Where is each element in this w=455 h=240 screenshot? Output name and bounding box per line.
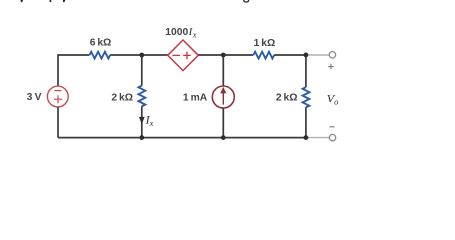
svg-text:1mA: 1mA — [183, 92, 208, 103]
wire: 1mA branch upper — [222, 55, 224, 86]
resistor 2 kOhm right (vertical zigzag) — [303, 87, 310, 107]
wire: left vertical top (corner to source) — [57, 54, 59, 86]
current arrow Ix (down) — [139, 117, 145, 124]
cropped text fragment 2 (top edge) — [50, 0, 52, 2]
dependent source U1 diamond 1000Ix — [168, 40, 199, 71]
wire: middle branch lower (2k to bottom rail) — [141, 106, 143, 137]
wire: top, 1k to right junction — [274, 54, 306, 56]
wire: stub to bottom output terminal (light) — [306, 137, 329, 139]
resistor 1 kOhm (horizontal zigzag) — [253, 52, 274, 59]
cropped text fragment 3 (top edge) — [63, 0, 66, 2]
svg-text:2kΩ: 2kΩ — [111, 93, 133, 104]
plus sign inside diamond — [183, 52, 191, 60]
arrow inside current source (up) — [222, 93, 224, 105]
minus sign of output — [329, 126, 334, 128]
plus sign of output — [328, 64, 333, 69]
node dot top 1mA-branch — [221, 53, 226, 58]
current source I1 1mA (circle) — [212, 86, 234, 108]
cropped text fragment 1 (top edge) — [21, 0, 24, 2]
wire: top, 6k to diamond — [110, 54, 168, 56]
svg-text:1kΩ: 1kΩ — [254, 38, 276, 49]
minus sign inside diamond — [172, 54, 180, 56]
node dot top middle-branch — [139, 53, 144, 58]
node dot bottom right-branch — [304, 135, 309, 140]
wire: top, diamond to 1k resistor — [198, 54, 253, 56]
wire: right branch upper (top rail to 2k) — [305, 55, 307, 87]
node dot top right-branch — [304, 53, 309, 58]
voltage source V1 3V (circle) — [47, 86, 68, 107]
resistor 2 kOhm middle (vertical zigzag) — [139, 86, 146, 107]
wire: right branch lower (2k to bottom rail) — [305, 107, 307, 137]
minus sign inside source — [54, 90, 61, 92]
svg-text:2kΩ: 2kΩ — [276, 92, 298, 103]
cropped text fragment 4 (top edge, bowl of g) — [244, 0, 249, 2]
svg-text:1000Ix: 1000Ix — [165, 26, 196, 39]
terminal top-right (open circle) — [329, 52, 335, 58]
node dot bottom middle-branch — [139, 135, 144, 140]
wire: middle branch upper (top rail to 2k) — [141, 55, 143, 86]
wire: left vertical bottom (source to corner) — [57, 107, 59, 138]
svg-text:6kΩ: 6kΩ — [90, 38, 112, 49]
terminal bottom-right (open circle) — [329, 134, 335, 140]
node dot bottom 1mA-branch — [221, 135, 226, 140]
wire: top left segment (corner to 6k resistor) — [58, 54, 90, 56]
resistor 6 kOhm (horizontal zigzag) — [90, 52, 111, 59]
wire: bottom rail — [58, 137, 306, 139]
svg-text:3V: 3V — [27, 92, 42, 103]
wire: 1mA branch lower — [222, 108, 224, 138]
wire: stub to top output terminal (light) — [306, 54, 329, 56]
plus sign inside source — [54, 95, 62, 103]
